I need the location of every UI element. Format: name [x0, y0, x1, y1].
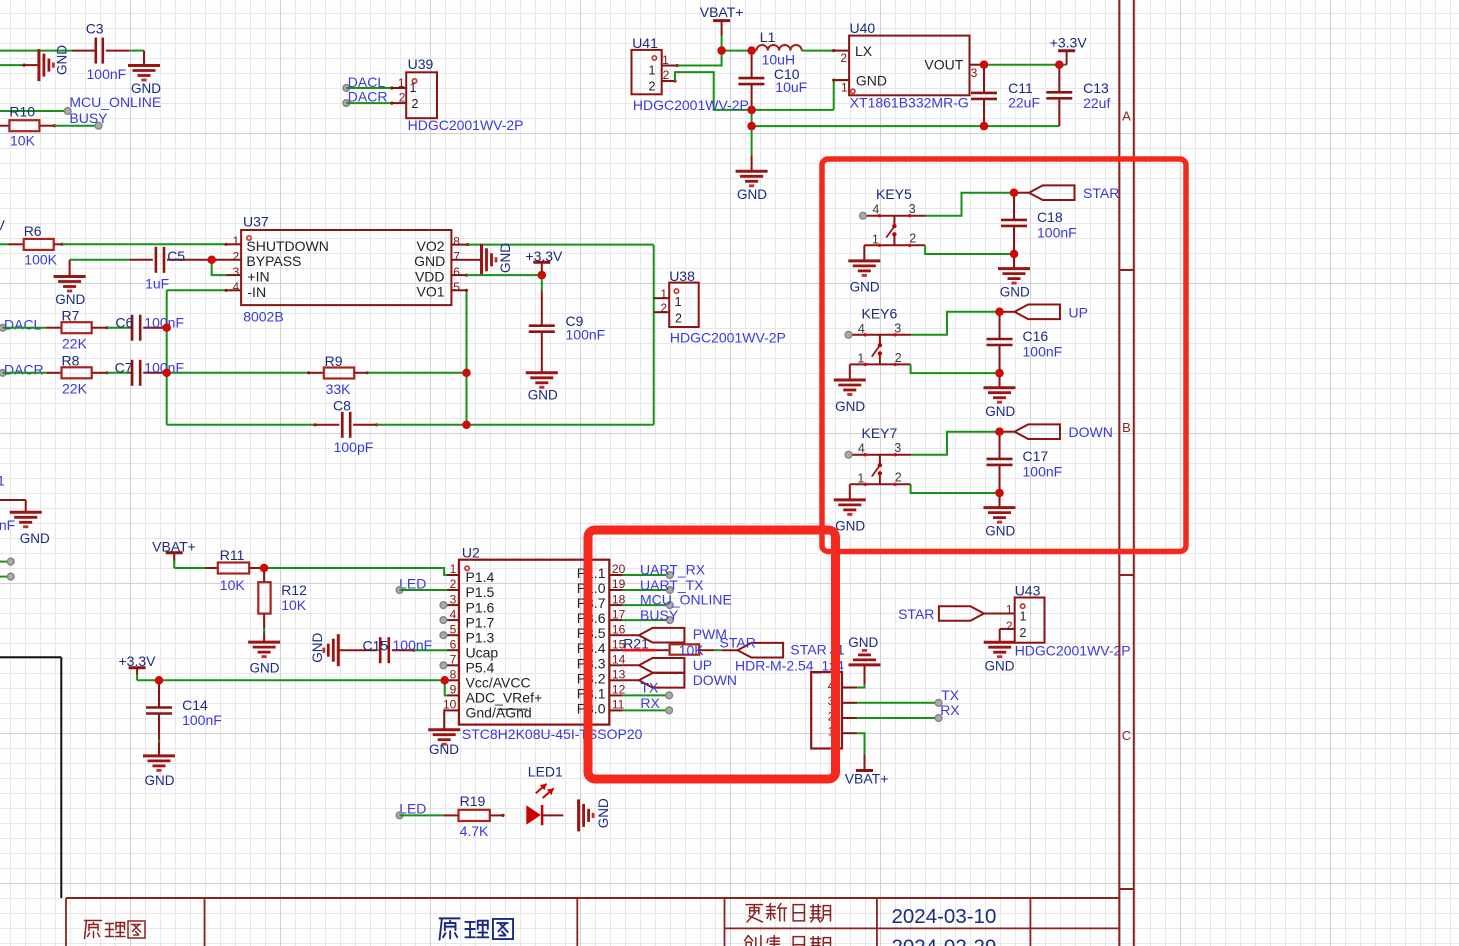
- svg-text:4.7K: 4.7K: [460, 823, 489, 839]
- svg-text:STAR: STAR: [790, 642, 826, 658]
- svg-text:GND: GND: [985, 524, 1015, 539]
- svg-text:TX: TX: [640, 679, 659, 695]
- svg-text:LED1: LED1: [528, 764, 563, 780]
- svg-text:U37: U37: [243, 214, 269, 230]
- svg-text:RX: RX: [940, 702, 960, 718]
- svg-text:22uf: 22uf: [1083, 95, 1110, 111]
- svg-text:2: 2: [663, 68, 670, 82]
- svg-text:Ucap: Ucap: [466, 644, 499, 660]
- svg-text:100nF: 100nF: [1037, 225, 1077, 241]
- svg-text:STAR: STAR: [720, 634, 756, 650]
- svg-text:100nF: 100nF: [87, 66, 127, 82]
- svg-text:1: 1: [872, 232, 879, 246]
- svg-text:2: 2: [675, 312, 682, 326]
- svg-text:1: 1: [857, 351, 864, 365]
- svg-text:DACR: DACR: [4, 361, 44, 377]
- svg-text:100nF: 100nF: [0, 517, 15, 533]
- svg-text:MCU_ONLINE: MCU_ONLINE: [640, 592, 732, 608]
- svg-text:2024-02-29: 2024-02-29: [892, 935, 997, 946]
- svg-text:10uF: 10uF: [775, 79, 807, 95]
- svg-text:DACL: DACL: [4, 317, 42, 333]
- svg-text:KEY5: KEY5: [876, 186, 912, 202]
- svg-text:TX: TX: [941, 687, 960, 703]
- svg-text:GND: GND: [737, 187, 767, 202]
- svg-text:C8: C8: [333, 397, 351, 413]
- svg-text:3: 3: [233, 265, 240, 279]
- svg-text:1: 1: [675, 295, 682, 309]
- svg-text:GND: GND: [848, 635, 878, 650]
- svg-text:4: 4: [233, 280, 240, 294]
- svg-text:STAR: STAR: [898, 606, 934, 622]
- svg-text:C16: C16: [1023, 328, 1049, 344]
- svg-text:22K: 22K: [62, 381, 88, 397]
- svg-text:100nF: 100nF: [182, 712, 222, 728]
- svg-text:U38: U38: [669, 268, 695, 284]
- svg-text:1: 1: [841, 81, 848, 95]
- svg-text:2: 2: [909, 232, 916, 246]
- svg-text:DOWN: DOWN: [1069, 424, 1113, 440]
- svg-text:2: 2: [895, 351, 902, 365]
- svg-text:GND: GND: [55, 292, 85, 307]
- svg-text:BUSY: BUSY: [640, 607, 679, 623]
- svg-text:V: V: [0, 217, 6, 233]
- svg-text:STC8H2K08U-45I-TSSOP20: STC8H2K08U-45I-TSSOP20: [462, 726, 643, 742]
- svg-text:UP: UP: [1069, 304, 1088, 320]
- svg-text:UART_TX: UART_TX: [640, 577, 704, 593]
- svg-text:4: 4: [872, 203, 879, 217]
- svg-text:RX: RX: [640, 695, 660, 711]
- svg-text:U41: U41: [632, 35, 658, 51]
- svg-text:U43: U43: [1015, 583, 1041, 599]
- svg-text:LX: LX: [855, 43, 873, 59]
- svg-text:R8: R8: [62, 352, 80, 368]
- svg-text:C13: C13: [1083, 80, 1109, 96]
- svg-text:+IN: +IN: [247, 269, 269, 285]
- svg-text:2: 2: [649, 80, 656, 94]
- svg-text:GND: GND: [528, 387, 558, 402]
- svg-text:VDD: VDD: [415, 268, 445, 284]
- svg-text:8002B: 8002B: [243, 309, 283, 325]
- svg-text:DOWN: DOWN: [693, 672, 737, 688]
- svg-text:7: 7: [453, 250, 460, 264]
- svg-text:GND: GND: [856, 72, 887, 88]
- svg-text:P1.5: P1.5: [466, 584, 495, 600]
- svg-text:GND: GND: [985, 404, 1015, 419]
- svg-text:3: 3: [971, 66, 978, 80]
- svg-text:HDGC2001WV-2P: HDGC2001WV-2P: [1015, 643, 1131, 659]
- svg-text:3: 3: [894, 441, 901, 455]
- svg-text:VBAT+: VBAT+: [845, 771, 889, 787]
- svg-text:8: 8: [453, 234, 460, 248]
- svg-text:MCU_ONLINE: MCU_ONLINE: [69, 94, 161, 110]
- svg-text:P1.7: P1.7: [466, 614, 495, 630]
- svg-text:STAR: STAR: [1083, 185, 1119, 201]
- svg-text:22uF: 22uF: [1008, 94, 1040, 110]
- svg-text:P1.3: P1.3: [466, 629, 495, 645]
- svg-text:C5: C5: [167, 248, 185, 264]
- svg-text:R21: R21: [623, 635, 649, 651]
- svg-text:+3.3V: +3.3V: [525, 248, 563, 264]
- svg-text:C15: C15: [363, 638, 389, 654]
- svg-text:VBAT+: VBAT+: [700, 4, 744, 20]
- svg-text:100nF: 100nF: [1023, 344, 1063, 360]
- svg-text:ADC_VRef+: ADC_VRef+: [466, 690, 543, 706]
- svg-text:100K: 100K: [24, 252, 57, 268]
- svg-text:4: 4: [858, 442, 865, 456]
- svg-text:1: 1: [1006, 603, 1013, 617]
- svg-text:C6: C6: [115, 315, 133, 331]
- svg-text:2: 2: [1020, 626, 1027, 640]
- svg-text:GND: GND: [55, 45, 70, 75]
- svg-text:10uH: 10uH: [762, 51, 795, 67]
- svg-text:5: 5: [453, 280, 460, 294]
- svg-text:SHUTDOWN: SHUTDOWN: [246, 238, 328, 254]
- svg-text:R7: R7: [62, 307, 80, 323]
- svg-text:A: A: [1122, 109, 1131, 124]
- svg-text:R9: R9: [325, 353, 343, 369]
- svg-text:HDGC2001WV-2P: HDGC2001WV-2P: [408, 117, 524, 133]
- svg-text:U39: U39: [408, 56, 434, 72]
- svg-text:BYPASS: BYPASS: [246, 253, 301, 269]
- svg-text:C14: C14: [182, 697, 208, 713]
- svg-text:U2: U2: [462, 544, 480, 560]
- svg-text:C18: C18: [1037, 209, 1063, 225]
- svg-text:+3.3V: +3.3V: [1050, 35, 1088, 51]
- svg-text:1: 1: [1020, 609, 1027, 623]
- svg-text:VO1: VO1: [416, 284, 444, 300]
- svg-text:BUSY: BUSY: [69, 110, 108, 126]
- svg-text:GND: GND: [596, 798, 611, 828]
- svg-text:VOUT: VOUT: [924, 57, 963, 73]
- svg-text:100nF: 100nF: [1023, 464, 1063, 480]
- svg-text:KEY6: KEY6: [862, 305, 898, 321]
- svg-text:1: 1: [857, 471, 864, 485]
- svg-text:22K: 22K: [62, 336, 88, 352]
- svg-text:1uF: 1uF: [145, 275, 169, 291]
- svg-text:GND: GND: [250, 661, 280, 676]
- svg-text:C7: C7: [115, 359, 133, 375]
- svg-text:2: 2: [1006, 619, 1013, 633]
- svg-text:10K: 10K: [679, 642, 705, 658]
- svg-text:GND: GND: [310, 632, 325, 662]
- svg-text:10K: 10K: [10, 133, 36, 149]
- svg-text:100pF: 100pF: [334, 439, 374, 455]
- svg-text:GND: GND: [850, 280, 880, 295]
- svg-text:2: 2: [412, 97, 419, 111]
- svg-text:6: 6: [453, 265, 460, 279]
- svg-text:3: 3: [909, 202, 916, 216]
- svg-text:GND: GND: [145, 773, 175, 788]
- svg-text:Gnd/AGnd: Gnd/AGnd: [466, 705, 532, 721]
- svg-text:R11: R11: [220, 547, 245, 563]
- svg-text:UART_RX: UART_RX: [640, 561, 706, 577]
- svg-text:L1: L1: [760, 29, 776, 45]
- svg-text:HDGC2001WV-2P: HDGC2001WV-2P: [633, 97, 749, 113]
- svg-text:Vcc/AVCC: Vcc/AVCC: [466, 675, 531, 691]
- svg-text:1: 1: [410, 81, 417, 95]
- svg-text:C: C: [1122, 728, 1131, 743]
- svg-text:GND: GND: [414, 253, 445, 269]
- svg-text:1: 1: [233, 234, 240, 248]
- svg-text:R6: R6: [24, 223, 42, 239]
- svg-text:10K: 10K: [281, 597, 307, 613]
- svg-text:GND: GND: [835, 519, 865, 534]
- svg-text:C17: C17: [1023, 448, 1049, 464]
- svg-text:R10: R10: [9, 104, 35, 120]
- svg-text:2024-03-10: 2024-03-10: [892, 905, 997, 928]
- svg-text:GND: GND: [1000, 285, 1030, 300]
- svg-text:2: 2: [840, 51, 847, 65]
- svg-text:4: 4: [858, 322, 865, 336]
- svg-text:100nF: 100nF: [393, 637, 433, 653]
- svg-text:GND: GND: [498, 243, 513, 273]
- svg-text:P1.4: P1.4: [466, 569, 495, 585]
- svg-text:10K: 10K: [220, 577, 246, 593]
- svg-text:R12: R12: [281, 582, 307, 598]
- svg-text:GND: GND: [835, 399, 865, 414]
- svg-text:KEY7: KEY7: [862, 425, 898, 441]
- svg-text:DACR: DACR: [348, 88, 388, 104]
- svg-text:UP: UP: [693, 657, 712, 673]
- svg-text:R19: R19: [460, 793, 486, 809]
- svg-text:GND: GND: [429, 742, 459, 757]
- svg-text:2: 2: [233, 250, 240, 264]
- svg-text:2: 2: [895, 471, 902, 485]
- svg-text:P5.4: P5.4: [466, 660, 495, 676]
- svg-text:P1.6: P1.6: [466, 599, 495, 615]
- svg-text:C3: C3: [86, 20, 104, 36]
- svg-text:-IN: -IN: [247, 284, 266, 300]
- svg-text:1: 1: [0, 473, 5, 489]
- svg-text:33K: 33K: [326, 381, 352, 397]
- svg-text:XT1861B332MR-G: XT1861B332MR-G: [850, 95, 969, 111]
- svg-text:GND: GND: [20, 531, 50, 546]
- svg-text:3: 3: [894, 321, 901, 335]
- svg-text:VO2: VO2: [416, 238, 444, 254]
- svg-text:100nF: 100nF: [566, 327, 606, 343]
- svg-text:B: B: [1122, 420, 1131, 435]
- svg-text:1: 1: [649, 64, 656, 78]
- svg-text:HDGC2001WV-2P: HDGC2001WV-2P: [670, 330, 786, 346]
- svg-text:GND: GND: [985, 659, 1015, 674]
- svg-text:U40: U40: [850, 20, 876, 36]
